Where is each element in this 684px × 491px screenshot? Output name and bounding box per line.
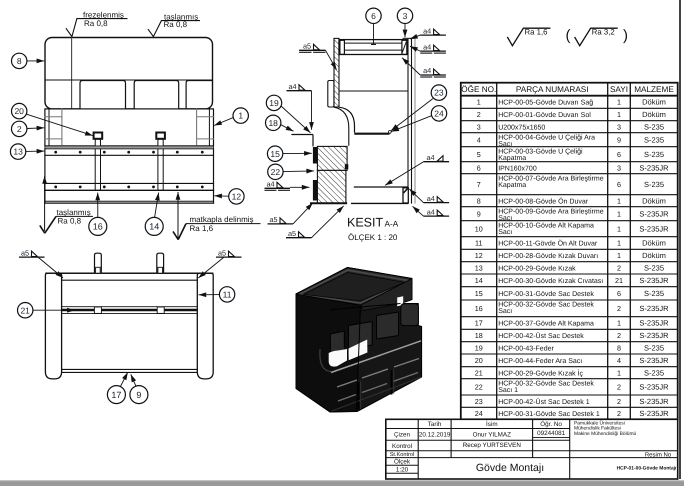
svg-text:3: 3	[477, 122, 481, 131]
surface finish symbol tas1	[148, 21, 200, 37]
weld symbol a5 bottomview-right	[216, 248, 242, 257]
svg-text:PARÇA NUMARASI: PARÇA NUMARASI	[516, 85, 589, 94]
svg-text:a4: a4	[289, 82, 297, 91]
balloon 11	[219, 287, 234, 302]
balloon 17	[107, 386, 125, 404]
note taslanmis top Ra 0,8	[164, 12, 199, 29]
svg-text:3: 3	[617, 122, 621, 131]
svg-text:a4: a4	[423, 26, 431, 35]
svg-text:20: 20	[14, 106, 24, 116]
white hole H2	[349, 340, 368, 361]
gray plate band	[45, 146, 214, 149]
svg-text:4: 4	[477, 135, 481, 144]
svg-text:Ra 1,6: Ra 1,6	[525, 28, 548, 37]
leader 1	[214, 118, 233, 126]
leader 13	[26, 150, 45, 152]
svg-text:S-235: S-235	[644, 122, 664, 131]
svg-text:Ra 0,8: Ra 0,8	[58, 216, 82, 225]
svg-text:Sacı 1: Sacı 1	[498, 387, 518, 394]
svg-text:Onur YILMAZ: Onur YILMAZ	[473, 432, 512, 439]
svg-text:09244081: 09244081	[537, 430, 566, 437]
leader 20	[27, 114, 93, 135]
TITLE BLOCK	[386, 419, 678, 479]
hatch block upper	[317, 146, 347, 170]
svg-text:22: 22	[475, 382, 483, 391]
top plate outline	[339, 40, 407, 55]
svg-text:15: 15	[475, 289, 483, 298]
leader line matkapla	[178, 224, 186, 240]
bottom plate end cap	[403, 188, 408, 203]
note matkapla delinmis Ra 1,6	[186, 215, 261, 233]
balloon 3	[397, 8, 412, 23]
svg-text:Sacı: Sacı	[498, 308, 512, 315]
leader 14	[155, 193, 159, 218]
svg-text:MALZEME: MALZEME	[634, 85, 674, 94]
svg-text:Recep YURTSEVEN: Recep YURTSEVEN	[463, 442, 522, 449]
svg-text:21: 21	[615, 276, 623, 285]
svg-text:1: 1	[477, 98, 481, 107]
front-left vertical edge	[357, 305, 361, 411]
svg-text:SAYI: SAYI	[610, 85, 628, 94]
svg-text:S-235JR: S-235JR	[639, 319, 669, 328]
svg-text:2: 2	[617, 263, 621, 272]
svg-text:16: 16	[475, 304, 483, 313]
rail clip 2	[157, 307, 164, 313]
right post wall line	[208, 109, 210, 146]
3D ISOMETRIC MODEL (dark CAD render)	[296, 268, 422, 413]
inner vertical partition	[71, 38, 73, 109]
svg-text:): )	[623, 27, 628, 44]
balloon 1	[233, 108, 248, 123]
svg-text:Tarih: Tarih	[428, 421, 442, 428]
BOTTOM VIEW (lower-left)	[45, 253, 213, 379]
base bottom edge	[45, 202, 214, 204]
svg-text:13: 13	[475, 263, 483, 272]
bed streak 3 dashes	[338, 395, 356, 402]
rivet band 2 top line	[45, 182, 214, 184]
bolt 16 cap	[94, 133, 103, 139]
svg-text:HCP-00-11-Gövde Ön Alt Duvar: HCP-00-11-Gövde Ön Alt Duvar	[498, 240, 598, 248]
svg-text:1: 1	[617, 196, 621, 205]
weld symbol a4 right-1	[420, 26, 446, 35]
svg-text:ÖLÇEK 1 : 20: ÖLÇEK 1 : 20	[348, 233, 398, 242]
svg-text:HCP-00-10-Gövde Alt Kapama: HCP-00-10-Gövde Alt Kapama	[498, 221, 594, 229]
weld symbol a4 right-mid	[424, 153, 450, 162]
svg-text:19: 19	[269, 98, 279, 108]
bottom plate	[354, 186, 409, 188]
inner top line	[62, 279, 198, 281]
bottom band lines	[62, 368, 198, 370]
svg-text:18: 18	[268, 118, 278, 128]
svg-text:18: 18	[475, 331, 483, 340]
svg-text:22: 22	[271, 167, 281, 177]
svg-text:12: 12	[475, 251, 483, 260]
svg-text:3: 3	[403, 11, 408, 21]
svg-text:24: 24	[434, 108, 444, 118]
balloon 6	[366, 8, 381, 23]
svg-text:St.Kontrol: St.Kontrol	[390, 451, 415, 458]
white notch mid	[397, 296, 403, 306]
window block B	[349, 322, 373, 349]
svg-text:a5: a5	[218, 248, 226, 257]
base line 1	[45, 200, 214, 202]
balloon 13	[10, 144, 25, 159]
svg-text:S-235: S-235	[644, 368, 664, 377]
window block A	[330, 331, 344, 353]
rivet dots row 1	[54, 151, 203, 154]
svg-text:HCP-00-42-Üst Sac Destek: HCP-00-42-Üst Sac Destek	[498, 332, 584, 340]
svg-text:Sacı: Sacı	[498, 215, 512, 222]
leader 8	[27, 60, 44, 62]
svg-text:HCP-00-42-Üst Sac Destek 1: HCP-00-42-Üst Sac Destek 1	[498, 398, 590, 406]
svg-text:S-235JR: S-235JR	[639, 224, 669, 233]
front-left J edge highlight	[320, 349, 331, 372]
rail upper line	[62, 306, 198, 308]
svg-text:9: 9	[617, 135, 621, 144]
balloon 23	[431, 85, 446, 100]
leader 19	[281, 106, 311, 133]
svg-text:Döküm: Döküm	[642, 196, 666, 205]
svg-text:HCP-00-32-Gövde Sac Destek: HCP-00-32-Gövde Sac Destek	[498, 301, 594, 309]
PARTS LIST TABLE	[461, 83, 678, 420]
svg-text:Mühendislik Fakültesi: Mühendislik Fakültesi	[574, 426, 621, 432]
svg-text:14: 14	[149, 222, 159, 232]
svg-text:HCP-00-01-Gövde Duvarı Sol: HCP-00-01-Gövde Duvarı Sol	[498, 111, 591, 119]
svg-text:1: 1	[617, 110, 621, 119]
svg-text:17: 17	[475, 319, 483, 328]
svg-text:Ölçek: Ölçek	[394, 458, 411, 466]
inner horizontal line	[45, 79, 213, 81]
svg-text:S-235: S-235	[644, 150, 664, 159]
svg-text:S-235: S-235	[644, 343, 664, 352]
svg-text:A-A: A-A	[385, 220, 399, 229]
leader 24	[391, 116, 431, 132]
rivet dots row 2	[54, 186, 203, 189]
svg-text:S-235JR: S-235JR	[639, 163, 669, 172]
svg-text:HCP-00-05-Gövde Duvarı Sağ: HCP-00-05-Gövde Duvarı Sağ	[498, 99, 593, 107]
svg-text:S-235JR: S-235JR	[639, 409, 669, 418]
leader 6	[373, 24, 375, 45]
svg-text:Ra 3,2: Ra 3,2	[592, 28, 615, 37]
svg-text:9: 9	[477, 209, 481, 218]
svg-text:2: 2	[477, 110, 481, 119]
base front edge highlight	[332, 377, 422, 411]
sheet right border	[679, 0, 681, 479]
svg-text:21: 21	[20, 305, 30, 315]
svg-text:Döküm: Döküm	[642, 98, 666, 107]
svg-text:11: 11	[223, 289, 232, 299]
svg-text:2: 2	[617, 397, 621, 406]
svg-text:8: 8	[617, 343, 621, 352]
svg-text:HCP-00-09-Gövde Ara Birleştirm: HCP-00-09-Gövde Ara Birleştirme	[498, 207, 604, 215]
left edge lower	[44, 149, 46, 203]
svg-text:12: 12	[232, 191, 242, 201]
svg-text:23: 23	[434, 88, 444, 98]
slat divider 2	[391, 370, 393, 395]
svg-text:1: 1	[617, 319, 621, 328]
svg-text:1: 1	[238, 111, 243, 121]
leader arrow down-left of taslanmis	[45, 216, 56, 233]
svg-text:Ra 0,8: Ra 0,8	[164, 20, 188, 29]
section title	[347, 216, 399, 242]
svg-text:S-235: S-235	[644, 180, 664, 189]
svg-text:a4: a4	[427, 207, 435, 216]
black bar 15 upper	[313, 147, 318, 164]
svg-text:Döküm: Döküm	[642, 251, 666, 260]
balloon 24	[431, 106, 446, 121]
balloon 16	[89, 217, 107, 235]
svg-text:HCP-00-44-Feder Ara Sacı: HCP-00-44-Feder Ara Sacı	[498, 357, 582, 365]
leader 17	[120, 372, 127, 386]
right post inner line	[196, 109, 198, 146]
tab 2	[157, 253, 164, 273]
svg-text:Sacı: Sacı	[498, 229, 512, 236]
svg-text:HCP-00-08-Gövde Ön Duvar: HCP-00-08-Gövde Ön Duvar	[498, 197, 589, 205]
svg-text:(: (	[566, 27, 571, 44]
svg-text:23: 23	[475, 397, 483, 406]
svg-text:S-235JR: S-235JR	[639, 382, 669, 391]
svg-text:Kapatma: Kapatma	[498, 182, 526, 189]
weld symbol a4 right-2	[420, 42, 446, 53]
svg-text:6: 6	[477, 163, 481, 172]
svg-text:S-235JR: S-235JR	[639, 397, 669, 406]
top plate left end cap	[340, 40, 345, 54]
bolt 16 shaft	[95, 139, 100, 191]
svg-text:Kapatma: Kapatma	[498, 155, 526, 162]
rail clip 1	[94, 307, 101, 313]
svg-text:S-235JR: S-235JR	[639, 331, 669, 340]
outer top edge	[45, 272, 213, 274]
svg-text:Ra 0,8: Ra 0,8	[84, 19, 108, 28]
svg-text:1: 1	[617, 98, 621, 107]
leader 22	[283, 170, 314, 173]
top plate right end cap	[402, 40, 407, 54]
note frezelenmis Ra 0,8	[83, 10, 124, 27]
leader 23	[391, 99, 433, 131]
balloon 15	[267, 146, 282, 161]
window W3	[186, 81, 212, 109]
bed streak 2 dashes	[337, 380, 357, 387]
svg-text:U200x75x1650: U200x75x1650	[498, 124, 545, 131]
svg-text:HCP-00-29-Gövde Kızak: HCP-00-29-Gövde Kızak	[498, 264, 576, 272]
svg-text:1: 1	[617, 209, 621, 218]
black bar 15 lower	[313, 180, 318, 201]
svg-text:HCP-00-31-Gövde Sac Destek 1: HCP-00-31-Gövde Sac Destek 1	[498, 410, 600, 418]
svg-text:HCP-00-29-Gövde Kızak İç: HCP-00-29-Gövde Kızak İç	[498, 368, 583, 377]
svg-text:HCP-01-00-Gövde Montajı: HCP-01-00-Gövde Montajı	[617, 466, 677, 472]
svg-text:a4: a4	[423, 42, 431, 51]
svg-text:S-235: S-235	[644, 135, 664, 144]
svg-text:15: 15	[270, 149, 280, 159]
balloon 22	[268, 164, 283, 179]
leader 21	[33, 309, 75, 311]
middle band outer	[45, 109, 214, 146]
weld symbol a4 mid-left	[287, 82, 312, 91]
right edge lower	[213, 149, 215, 203]
balloon 9	[130, 386, 148, 404]
left wall hatched	[334, 38, 339, 107]
svg-text:14: 14	[475, 276, 483, 285]
weld symbol a5 upper-left	[299, 42, 325, 53]
rivet band 1 lower line	[45, 154, 214, 156]
svg-text:1: 1	[617, 251, 621, 260]
weld symbol a4 right-3	[420, 66, 446, 77]
post horizontals right	[197, 116, 214, 118]
right wall lines	[407, 38, 409, 203]
svg-text:Ra 1,6: Ra 1,6	[190, 224, 214, 233]
white notch right	[413, 288, 421, 303]
base line under hatch block	[310, 202, 347, 204]
svg-text:İsim: İsim	[486, 420, 498, 428]
svg-text:S-235JR: S-235JR	[639, 356, 669, 365]
svg-text:a4: a4	[267, 180, 275, 189]
small left plate	[328, 81, 334, 108]
balloon 12	[229, 189, 244, 204]
svg-text:5: 5	[477, 150, 481, 159]
svg-text:a4: a4	[427, 153, 435, 162]
leader 16	[97, 193, 99, 218]
svg-text:S-235JR: S-235JR	[639, 209, 669, 218]
balloon 8	[12, 53, 27, 68]
svg-text:13: 13	[13, 147, 23, 157]
svg-text:6: 6	[617, 180, 621, 189]
FRONT VIEW (top-left): Gövde front elevation	[45, 38, 214, 204]
top plate web lines	[339, 42, 407, 44]
svg-text:a5: a5	[288, 229, 296, 238]
balloon 14	[145, 217, 163, 235]
svg-text:Resim No: Resim No	[645, 451, 672, 458]
svg-text:20: 20	[475, 356, 483, 365]
balloon 18	[266, 115, 281, 130]
svg-text:a4: a4	[423, 66, 431, 75]
slat divider 1	[358, 382, 360, 410]
svg-text:a5: a5	[270, 215, 278, 224]
weld symbol a5 bottom-left-2	[286, 229, 312, 238]
top face inner	[304, 273, 405, 302]
svg-text:7: 7	[477, 180, 481, 189]
leader 11	[199, 294, 220, 296]
wall J-curve outer	[339, 107, 355, 132]
svg-text:KESIT: KESIT	[347, 216, 383, 230]
leader 2	[27, 127, 44, 130]
post horizontals left	[45, 116, 62, 118]
balloon 2	[12, 121, 27, 136]
note taslanmis bottom Ra 0,8	[56, 208, 93, 226]
hatch block lower	[317, 170, 346, 203]
weld symbol a5 bottomview-left	[19, 248, 45, 257]
top edge redraw over post tops	[45, 272, 213, 274]
weld symbol a4 lower-left	[265, 180, 291, 191]
right post capsule	[197, 273, 213, 379]
svg-text:HCP-00-31-Gövde Sac Destek: HCP-00-31-Gövde Sac Destek	[498, 290, 594, 298]
svg-text:1: 1	[617, 239, 621, 248]
svg-text:21: 21	[475, 368, 483, 377]
wall J-curve inner	[334, 107, 349, 146]
surface finish symbol frez	[66, 19, 128, 37]
leader 15	[283, 152, 312, 154]
svg-text:2: 2	[617, 304, 621, 313]
top face rim highlight	[300, 270, 409, 303]
svg-text:Makine Mühendisliği Bölümü: Makine Mühendisliği Bölümü	[574, 431, 637, 437]
bolt 14 shaft	[158, 139, 163, 191]
svg-text:S-235: S-235	[644, 289, 664, 298]
weld symbol a4 bottom-right-2	[423, 207, 449, 216]
weld symbol a5 bottom-left-1	[268, 215, 294, 224]
svg-text:1:20: 1:20	[396, 466, 409, 473]
svg-text:Kontrol: Kontrol	[392, 443, 412, 450]
svg-text:a5: a5	[21, 248, 29, 257]
rail lower line	[62, 313, 198, 315]
svg-text:Öğr. No: Öğr. No	[540, 420, 562, 428]
left post capsule	[45, 273, 61, 379]
model silhouette	[296, 268, 422, 413]
svg-text:2: 2	[617, 409, 621, 418]
balloon 21	[18, 303, 33, 318]
svg-text:1: 1	[617, 368, 621, 377]
window block C	[377, 312, 399, 339]
svg-text:2: 2	[17, 124, 22, 134]
svg-text:a5: a5	[303, 42, 311, 51]
svg-text:Çizen: Çizen	[394, 432, 411, 439]
svg-text:24: 24	[475, 409, 483, 418]
left post wall line	[48, 109, 50, 146]
balloon 20	[12, 103, 27, 118]
svg-text:matkapla delinmiş: matkapla delinmiş	[190, 215, 254, 224]
window W1	[80, 81, 126, 109]
svg-text:HCP-00-43-Feder: HCP-00-43-Feder	[498, 344, 554, 352]
rivet band 2 bottom line	[45, 189, 214, 191]
bed top streak	[331, 341, 421, 373]
rail dark band	[62, 309, 198, 311]
svg-text:8: 8	[477, 196, 481, 205]
svg-text:9: 9	[136, 390, 141, 400]
svg-text:3: 3	[617, 163, 621, 172]
left post inner line	[61, 109, 63, 146]
step thick line right (balloon 24 target)	[354, 133, 389, 135]
svg-text:6: 6	[617, 289, 621, 298]
general surface note Ra 1,6	[507, 28, 550, 46]
leader 9	[131, 374, 136, 386]
svg-text:S-235: S-235	[644, 263, 664, 272]
svg-text:Döküm: Döküm	[642, 110, 666, 119]
bottom gray bar	[0, 481, 684, 486]
svg-text:6: 6	[371, 11, 376, 21]
head right band	[361, 279, 413, 311]
svg-text:11: 11	[475, 239, 482, 248]
ear block D	[401, 304, 419, 326]
weld symbol a4 bottom-right-1	[423, 194, 449, 203]
black square 22	[345, 164, 349, 169]
svg-text:19: 19	[475, 343, 483, 352]
svg-text:Gövde Montajı: Gövde Montajı	[476, 462, 544, 474]
small circle at leader 23/24 tip	[388, 131, 391, 134]
svg-text:4: 4	[617, 356, 621, 365]
svg-text:HCP-00-30-Gövde Kızak Cıvatası: HCP-00-30-Gövde Kızak Cıvatası	[498, 277, 603, 285]
svg-text:Sacı: Sacı	[498, 141, 512, 148]
svg-text:S-235JR: S-235JR	[639, 276, 669, 285]
svg-text:8: 8	[17, 56, 22, 66]
svg-text:1: 1	[617, 224, 621, 233]
svg-text:S-235JR: S-235JR	[639, 304, 669, 313]
svg-text:Pamukkale Üniversitesi: Pamukkale Üniversitesi	[574, 419, 625, 426]
svg-text:16: 16	[93, 222, 103, 232]
window W2	[134, 81, 179, 109]
svg-text:HCP-00-37-Gövde Alt Kapama: HCP-00-37-Gövde Alt Kapama	[498, 320, 594, 328]
svg-text:2: 2	[617, 382, 621, 391]
svg-text:a4: a4	[427, 194, 435, 203]
svg-text:HCP-00-28-Gövde Kızak Duvarı: HCP-00-28-Gövde Kızak Duvarı	[498, 252, 598, 260]
svg-text:17: 17	[111, 390, 121, 400]
